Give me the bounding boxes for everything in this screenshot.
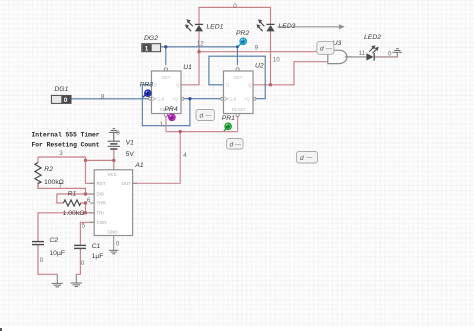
wire net 7 (R2 bottom, DIS, R1 left) <box>38 182 94 203</box>
wire net 2 U2 feedback (~Q to D) <box>209 56 265 98</box>
svg-text:d: d <box>300 155 304 162</box>
node junction reset <box>179 130 182 133</box>
svg-text:DIS: DIS <box>97 192 105 197</box>
probe readout badge b2 <box>227 139 244 150</box>
ground at LED2 (inverted) <box>393 49 403 53</box>
probe PR2 <box>236 30 249 47</box>
svg-text:0: 0 <box>81 260 85 267</box>
wire net 12 (LED1 bottom to U1 Q) <box>181 31 199 84</box>
node junction U1 ~Q <box>188 97 191 100</box>
svg-text:LED2: LED2 <box>364 34 381 41</box>
svg-text:—: — <box>307 155 313 161</box>
svg-text:1.00kΩ: 1.00kΩ <box>63 210 85 217</box>
wire C2 to ground <box>38 245 57 274</box>
svg-text:CLK: CLK <box>156 97 164 102</box>
svg-text:SET: SET <box>234 75 243 80</box>
svg-text:8: 8 <box>101 93 105 100</box>
svg-text:R2: R2 <box>44 166 53 173</box>
svg-text:100kΩ: 100kΩ <box>44 179 64 186</box>
svg-text:4: 4 <box>183 152 187 159</box>
node junction net9 <box>197 50 200 53</box>
svg-text:VCC: VCC <box>108 172 118 177</box>
wire DG2 net (blue, to U1 SET and U2 SET) <box>160 47 237 65</box>
svg-text:RST: RST <box>97 181 106 186</box>
svg-text:0: 0 <box>116 240 120 247</box>
wire U3 output to LED2 <box>347 56 366 58</box>
svg-text:1µF: 1µF <box>92 253 104 260</box>
555 timer A1 <box>94 170 132 236</box>
svg-text:OUT: OUT <box>122 181 132 186</box>
wire net 9 (to U3 input A) <box>199 51 328 53</box>
probe readout badge b3 <box>297 152 318 164</box>
svg-text:~Q: ~Q <box>172 97 179 102</box>
svg-text:For Reseting Count: For Reseting Count <box>32 141 100 148</box>
svg-text:PR4: PR4 <box>164 106 177 113</box>
svg-text:Internal 555 Timer: Internal 555 Timer <box>32 132 100 139</box>
svg-text:0: 0 <box>40 257 44 264</box>
capacitor C2 <box>32 242 44 245</box>
node junction net10 <box>269 83 272 86</box>
node junction U2 SET <box>236 45 239 48</box>
svg-text:0: 0 <box>116 130 120 137</box>
svg-text:D: D <box>226 83 229 88</box>
wire LED3 branch (LED3 bottom to net10) <box>270 31 272 84</box>
svg-text:C2: C2 <box>49 237 58 244</box>
svg-text:CON: CON <box>97 220 107 225</box>
corner mark <box>0 328 2 331</box>
svg-text:C1: C1 <box>92 243 101 250</box>
ground above V1 (inverted) <box>113 132 115 141</box>
svg-text:PR2: PR2 <box>236 30 249 37</box>
flip-flop U1 <box>152 71 182 114</box>
LED2 <box>366 45 378 60</box>
node junction U1 SET <box>164 45 167 48</box>
resistor R1 <box>63 200 80 206</box>
wire net 5 (CON to C1) <box>80 222 94 245</box>
svg-text:CLK: CLK <box>228 97 236 102</box>
svg-text:0: 0 <box>388 50 392 57</box>
svg-text:U1: U1 <box>183 64 192 71</box>
wire LED2 to ground <box>375 52 398 57</box>
AND gate U3 <box>328 50 347 63</box>
node junction net3 a <box>84 159 87 162</box>
wire net 10 (U2 Q to U3 input B) <box>253 62 328 85</box>
wire net 1 U1 feedback (~Q to D) <box>142 85 190 126</box>
svg-text:1: 1 <box>160 121 164 128</box>
svg-text:0: 0 <box>64 97 68 104</box>
node junction net3 b <box>112 159 115 162</box>
svg-text:5: 5 <box>82 222 86 229</box>
svg-text:V1: V1 <box>126 139 135 146</box>
svg-text:U2: U2 <box>255 62 264 69</box>
wire net 0 top (LED1 top to LED3 top) <box>199 7 271 24</box>
wire net 6 (R1 right, THR, TRI, C2) <box>38 203 94 241</box>
svg-text:3: 3 <box>59 150 63 157</box>
capacitor C1 <box>74 245 86 248</box>
node junction net6 a <box>84 201 87 204</box>
wire DG1 net 8 (blue to U1 CLK) <box>71 98 149 100</box>
flip-flop U2 <box>224 71 254 114</box>
probe PR3 <box>140 81 153 97</box>
annotation arrow from LED3 <box>278 26 340 28</box>
wire net 3 (VCC: R2 top, battery, RST) <box>38 149 114 183</box>
ground below A1 <box>109 250 119 254</box>
ground below C1 <box>71 283 82 287</box>
svg-text:THR: THR <box>97 201 107 206</box>
svg-text:DG2: DG2 <box>144 35 158 42</box>
svg-text:—: — <box>206 113 212 119</box>
digital constant DG1 <box>51 95 71 103</box>
probe readout badge b1 <box>196 110 215 121</box>
wire C1 to ground <box>76 249 80 275</box>
svg-text:RESET: RESET <box>232 107 247 112</box>
wire U1 ~Q to U2 CLK <box>184 98 221 100</box>
node junction net6 b <box>84 211 87 214</box>
svg-text:LED1: LED1 <box>206 24 223 31</box>
LED1 <box>185 19 203 31</box>
svg-text:1: 1 <box>145 45 149 52</box>
LED3 <box>257 19 275 31</box>
svg-text:GND: GND <box>108 229 119 234</box>
svg-text:PR1: PR1 <box>222 115 235 122</box>
probe readout badge b4 <box>317 42 334 55</box>
svg-text:d: d <box>230 141 234 148</box>
digital constant DG2 <box>142 44 161 52</box>
svg-text:0: 0 <box>233 3 237 10</box>
probe PR4 <box>164 106 177 121</box>
svg-text:SET: SET <box>162 75 171 80</box>
svg-text:10µF: 10µF <box>49 250 65 257</box>
svg-text:d: d <box>200 113 204 120</box>
wire U1 SET drop <box>165 47 167 65</box>
svg-text:D: D <box>154 83 157 88</box>
svg-text:—: — <box>235 142 241 148</box>
svg-text:A1: A1 <box>134 162 144 169</box>
svg-text:9: 9 <box>255 44 259 51</box>
svg-text:d: d <box>320 46 324 53</box>
svg-text:PR3: PR3 <box>140 81 153 88</box>
svg-text:10: 10 <box>273 57 280 64</box>
svg-text:—: — <box>326 46 332 52</box>
resistor R2 <box>35 163 41 184</box>
svg-text:~Q: ~Q <box>244 97 251 102</box>
svg-text:R1: R1 <box>68 191 77 198</box>
svg-text:DG1: DG1 <box>54 86 68 93</box>
ground below C2 <box>52 283 63 287</box>
node junction net7 <box>84 192 87 195</box>
svg-text:11: 11 <box>359 50 366 57</box>
svg-text:TRI: TRI <box>97 211 104 216</box>
battery V1 <box>108 141 120 149</box>
probe PR1 <box>222 115 235 131</box>
wire reset net 4 (555 OUT to U1/U2 RESET) <box>133 116 238 183</box>
svg-text:5V: 5V <box>126 151 135 158</box>
